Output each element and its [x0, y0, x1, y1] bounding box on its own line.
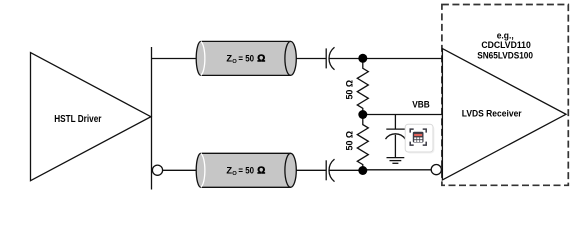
svg-text:O: O	[232, 59, 237, 65]
svg-text:50 Ω: 50 Ω	[344, 131, 354, 151]
svg-text:Ω: Ω	[257, 165, 265, 176]
svg-text:50 Ω: 50 Ω	[344, 80, 354, 100]
svg-text:= 50: = 50	[238, 54, 254, 64]
svg-text:LVDS Receiver: LVDS Receiver	[462, 108, 522, 119]
svg-text:HSTL Driver: HSTL Driver	[54, 114, 101, 125]
svg-text:CDCLVD110: CDCLVD110	[481, 40, 530, 50]
svg-text:= 50: = 50	[238, 165, 254, 175]
svg-text:Ω: Ω	[257, 54, 265, 65]
svg-text:e.g.,: e.g.,	[497, 30, 514, 40]
svg-text:O: O	[232, 171, 237, 177]
svg-text:SN65LVDS100: SN65LVDS100	[477, 51, 533, 61]
svg-text:VBB: VBB	[412, 99, 430, 109]
